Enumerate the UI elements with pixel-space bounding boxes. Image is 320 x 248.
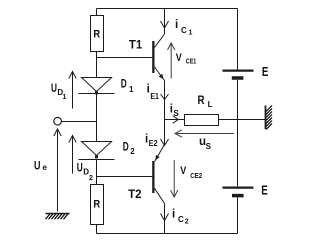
wire rail to R1	[96, 9, 98, 16]
svg-text:C: C	[178, 215, 184, 224]
svg-text:i: i	[175, 19, 178, 31]
ground (left input ground)	[46, 214, 70, 220]
label U_D1	[51, 83, 67, 101]
svg-text:CE1: CE1	[186, 57, 197, 66]
svg-text:CE2: CE2	[190, 171, 202, 180]
svg-text:C: C	[181, 26, 187, 35]
svg-text:D: D	[123, 142, 129, 154]
wire R2 to bottom rail	[96, 225, 98, 234]
wire D1 to D2	[96, 94, 98, 142]
svg-text:T2: T2	[128, 189, 141, 201]
load resistor RL	[185, 115, 219, 126]
label i_E1	[147, 84, 160, 102]
svg-text:R: R	[93, 199, 100, 211]
svg-text:E1: E1	[150, 92, 159, 101]
svg-text:1: 1	[189, 30, 193, 37]
diode D1	[79, 78, 115, 94]
label i_E2	[145, 134, 158, 149]
diode D2	[79, 142, 115, 160]
label V_CE1	[176, 52, 197, 65]
svg-text:R: R	[93, 29, 100, 41]
arrow U_D1	[69, 72, 76, 109]
svg-text:S: S	[206, 142, 212, 151]
label U_D2	[77, 163, 93, 183]
wire battery branch top	[237, 9, 239, 70]
wire T1 base	[97, 57, 153, 59]
resistor R1 (top bias resistor)	[91, 16, 104, 52]
arrow i_E2	[161, 139, 169, 146]
node dot D1 cathode	[95, 91, 98, 94]
wire battery bottom	[237, 197, 239, 233]
wire top rail	[97, 8, 238, 10]
svg-text:U: U	[51, 83, 57, 95]
arrow i_E1	[161, 94, 169, 100]
svg-text:e: e	[43, 163, 48, 172]
wire bottom rail	[97, 233, 238, 235]
label i_S	[170, 104, 180, 119]
label U_e	[34, 161, 48, 173]
diode D1 label	[121, 79, 134, 94]
svg-text:2: 2	[185, 219, 189, 226]
arrow U_D2	[69, 136, 76, 174]
arrow i_C1	[161, 21, 169, 28]
battery E1 (top)	[223, 71, 254, 78]
resistor R2 (bottom bias resistor)	[91, 185, 104, 225]
label u_S	[199, 136, 212, 151]
svg-text:i: i	[172, 209, 175, 221]
svg-text:U: U	[77, 163, 83, 175]
wire RL to output ground	[219, 119, 266, 121]
arrow V_CE2	[171, 160, 178, 197]
diode D2 label	[123, 142, 136, 157]
label i_C2	[172, 209, 189, 226]
svg-text:S: S	[173, 109, 179, 118]
wire T2 emitter from node	[164, 120, 166, 145]
svg-text:U: U	[34, 161, 41, 173]
battery E2 (bottom)	[223, 188, 254, 196]
wire input to diode midpoint	[61, 121, 96, 123]
svg-text:T1: T1	[129, 40, 143, 52]
label V_CE2	[180, 165, 202, 180]
svg-text:R: R	[198, 95, 206, 107]
transistor T2 (PNP)	[152, 145, 164, 204]
svg-text:V: V	[180, 165, 187, 177]
ground (right output ground)	[266, 106, 273, 130]
wire R1 to diode node	[96, 52, 98, 78]
arrow u_e	[54, 129, 61, 212]
svg-text:1: 1	[129, 85, 134, 94]
svg-text:1: 1	[63, 94, 67, 101]
svg-text:2: 2	[89, 175, 93, 182]
svg-text:E2: E2	[149, 139, 158, 148]
svg-text:E: E	[261, 183, 268, 198]
wire D2 to R2	[96, 160, 98, 185]
arrow i_S	[173, 116, 179, 123]
transistor T1 (NPN)	[152, 34, 164, 81]
wire T2 base	[97, 176, 153, 178]
wire T1 collector	[164, 9, 166, 35]
input terminal circle	[54, 117, 62, 125]
svg-text:E: E	[262, 64, 269, 79]
svg-text:2: 2	[130, 147, 135, 156]
svg-text:D: D	[121, 79, 127, 91]
arrow V_CE1	[168, 43, 175, 79]
wire T1 emitter	[164, 81, 166, 120]
wire emitter node to RL	[165, 119, 185, 121]
label i_C1	[175, 19, 193, 37]
label R_L	[198, 95, 213, 109]
svg-text:V: V	[176, 52, 183, 64]
wire battery mid	[237, 80, 239, 187]
wire T2 collector	[164, 203, 166, 233]
svg-text:L: L	[208, 100, 213, 109]
arrow i_C2	[161, 214, 169, 221]
arrow u_S	[175, 130, 234, 137]
node dot D2 cathode	[95, 155, 98, 158]
svg-text:i: i	[147, 84, 150, 96]
